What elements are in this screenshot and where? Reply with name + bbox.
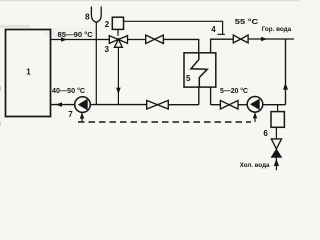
svg-text:40—50 °C: 40—50 °C [52,86,86,95]
svg-text:7: 7 [68,110,73,119]
svg-text:85—90 °C: 85—90 °C [58,30,94,39]
svg-text:6: 6 [263,129,268,138]
svg-text:1: 1 [26,68,31,77]
svg-text:55 °C: 55 °C [235,17,259,26]
svg-text:5: 5 [186,74,191,83]
svg-text:4: 4 [211,25,216,34]
svg-text:Гор. вода: Гор. вода [262,26,292,33]
svg-text:8: 8 [85,12,90,21]
svg-text:Хол. вода: Хол. вода [240,162,270,169]
svg-text:2: 2 [105,20,110,29]
svg-text:3: 3 [105,45,110,54]
svg-text:5—20 °C: 5—20 °C [220,87,248,95]
